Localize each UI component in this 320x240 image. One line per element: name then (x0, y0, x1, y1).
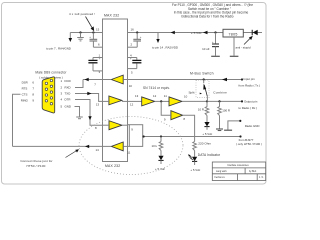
svg-text:10: 10 (129, 84, 133, 88)
wire pin7 T2 out (103, 79, 112, 81)
svg-text:+ 5 Vdc: + 5 Vdc (191, 31, 202, 35)
ground symbol on gnd rail (77, 33, 84, 41)
wire pin12 R1 out (122, 100, 128, 102)
dashed ellipse grouping (79, 117, 183, 175)
wire pin 9 R2 out to tie loop (122, 124, 128, 126)
node gnd-rail junction (79, 31, 81, 33)
svg-text:DCD: DCD (65, 79, 71, 83)
svg-text:1 / 1: 1 / 1 (259, 177, 264, 179)
svg-text:from Radio ( Tx ): from Radio ( Tx ) (239, 84, 261, 88)
svg-text:12: 12 (130, 103, 134, 107)
wire pin14 T1 out to CTS loop bus (103, 145, 112, 147)
wire DB9 GND pin5 to ground (75, 107, 83, 119)
inverter U3C (171, 111, 183, 120)
svg-text:bidirectional Data for / from: bidirectional Data for / from the Radio (181, 14, 233, 18)
svg-text:DSR: DSR (22, 81, 28, 85)
svg-text:GND: GND (65, 105, 71, 109)
arrowhead toward DB9 on loop bus (85, 145, 89, 148)
resistor R4 220 Ohm (193, 141, 212, 157)
diode D1 anti-stupid (reverse protection) (236, 30, 258, 50)
node data terminal (239, 135, 241, 137)
wire vcc rail pin 16 right (128, 32, 263, 34)
op-amp U1 MAX232 chip body (103, 19, 128, 162)
svg-text:+ 5 Vdc: + 5 Vdc (190, 168, 200, 172)
driver T1 triangle (in MAX232) (111, 142, 123, 151)
off-page arrow to pin 7 (69, 33, 71, 39)
svg-text:10 R: 10 R (198, 108, 204, 112)
svg-text:M-Bus Switch: M-Bus Switch (190, 72, 214, 76)
wire radio ground (224, 120, 259, 130)
svg-text:15: 15 (96, 28, 100, 32)
svg-text:13: 13 (135, 94, 139, 98)
note: title text block top right (172, 3, 253, 18)
diode D3 to +5V (155, 156, 165, 171)
wire pin13 R1 in from TXD (75, 94, 103, 102)
svg-text:10 k: 10 k (152, 144, 158, 148)
resistor R2 100R to ground (216, 101, 230, 130)
table title block (212, 162, 265, 181)
svg-text:Input pin: Input pin (244, 77, 255, 81)
svg-text:to Radio ( Rx ): to Radio ( Rx ) (239, 106, 258, 110)
svg-text:TXD: TXD (65, 91, 71, 95)
wire CTS bracket (13, 94, 21, 146)
arrowhead toward DB9 on RXD line (85, 78, 89, 81)
wire from A-out junction down to U3C in (161, 101, 171, 115)
node junction A-out (160, 100, 162, 102)
capacitor C3 (V+ to rail) (128, 31, 142, 47)
node data bus 10k junction (143, 135, 145, 137)
svg-text:DTR: DTR (65, 97, 71, 101)
svg-text:Output pin: Output pin (244, 99, 258, 103)
wire arrow from note to cap junction (86, 17, 93, 29)
receiver R2 triangle (in MAX232) (109, 121, 122, 130)
svg-text:RTS: RTS (22, 87, 28, 91)
svg-text:11: 11 (127, 151, 130, 155)
receiver R1 triangle (in MAX232) (109, 96, 122, 105)
wire U3A out to U3B in (155, 100, 169, 102)
svg-text:4 x 1uF positived !: 4 x 1uF positived ! (69, 12, 95, 16)
svg-text:RING: RING (21, 98, 29, 102)
arrowhead on input bus (222, 78, 227, 82)
driver T2 triangle (in MAX232) (111, 75, 123, 84)
svg-text:14: 14 (96, 148, 100, 152)
border frame (decorative) (2, 3, 267, 185)
node output terminal (241, 100, 243, 102)
wire data bus from loop (143, 136, 241, 138)
capacitor C2 pins 4-5 (128, 56, 142, 68)
note connect these just for HT50 (20, 149, 79, 168)
wire tie loop pins 9-11 (127, 125, 143, 155)
svg-text:DATA Indicator: DATA Indicator (198, 153, 221, 157)
labels DB9 right pins (61, 79, 71, 109)
diode D2 clamp to +5V (202, 122, 212, 136)
capacitor C5 10uF at regulator output (202, 31, 220, 56)
svg-text:CTS: CTS (22, 93, 28, 97)
svg-text:+ 5 Vdc: + 5 Vdc (202, 132, 212, 136)
svg-text:MAX 232: MAX 232 (105, 164, 120, 168)
resistor R1 10R pull (198, 101, 209, 122)
off-page arrow to pin 14 (157, 33, 159, 40)
svg-text:to pin 7 , RA4/GND: to pin 7 , RA4/GND (46, 46, 71, 50)
svg-text:7805: 7805 (228, 32, 237, 36)
wire jog down to RXD row (75, 80, 83, 88)
svg-text:Radio GND: Radio GND (245, 124, 260, 128)
arrowhead on TXD line (87, 92, 91, 95)
svg-text:by Burt: by Burt (249, 170, 257, 173)
wire gnd rail pin 15 left (70, 32, 102, 34)
wire pin 11 T1 in (123, 145, 127, 147)
node 100R junction (218, 100, 220, 102)
node switch common junction (206, 100, 208, 102)
svg-text:anti - stupid: anti - stupid (236, 46, 251, 50)
svg-text:MAX 232: MAX 232 (104, 14, 119, 18)
svg-text:10: 10 (184, 94, 188, 98)
svg-text:11: 11 (164, 94, 167, 98)
labels DB9 left pins (21, 81, 35, 103)
M-Bus switch S1 (188, 72, 227, 102)
svg-text:( only HT50 / P100 ): ( only HT50 / P100 ) (236, 142, 262, 146)
svg-text:Split: Split (188, 91, 194, 95)
capacitor C1 pins 1-3 (88, 56, 102, 71)
svg-text:Combine: Combine (213, 91, 227, 95)
node input terminal (241, 78, 243, 80)
svg-text:220 Ohm: 220 Ohm (198, 141, 211, 145)
wire U3C out to LED chain (183, 115, 195, 141)
svg-text:13: 13 (96, 103, 100, 107)
svg-text:Fecha rev: Fecha rev (215, 176, 226, 179)
svg-text:+ 5 Vdc: + 5 Vdc (155, 167, 165, 171)
LED D4 data indicator (188, 154, 201, 172)
svg-text:16: 16 (131, 28, 135, 32)
svg-text:Male DB9 connector: Male DB9 connector (35, 71, 66, 75)
inverter U3B (169, 97, 182, 106)
svg-text:100 R: 100 R (222, 108, 230, 112)
connector J1 male DB9 (35, 71, 66, 113)
svg-text:RXD: RXD (65, 85, 71, 89)
svg-text:10 uF: 10 uF (202, 47, 210, 51)
svg-text:Connect these just for: Connect these just for (20, 159, 52, 163)
wire DTR down to pin 8 (75, 100, 103, 126)
resistor R3 10k pull-up (152, 137, 163, 156)
regulator U2 7805 (223, 29, 243, 56)
svg-text:12: 12 (153, 94, 157, 98)
inverter U3A (142, 97, 155, 106)
wire T2 in pin10 / input bus (123, 79, 127, 81)
capacitor C4 (V- to rail) (89, 31, 102, 47)
svg-text:Interface conexiones: Interface conexiones (227, 164, 249, 167)
svg-text:HT50 / P100: HT50 / P100 (26, 164, 45, 168)
wire output bus (182, 100, 242, 102)
svg-text:Lang work: Lang work (216, 170, 227, 173)
svg-text:SN 7414 or equiv.: SN 7414 or equiv. (143, 86, 170, 90)
svg-text:to pin 14 , RA2/VDD: to pin 14 , RA2/VDD (152, 46, 178, 50)
